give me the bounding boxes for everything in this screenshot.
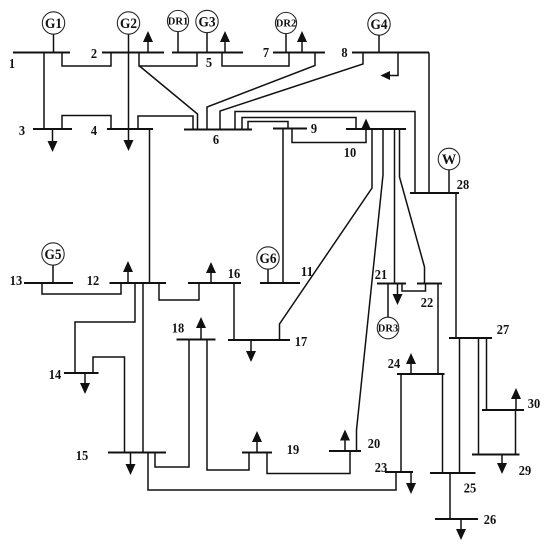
line 15-23 [148, 453, 396, 491]
bus 9 [273, 122, 317, 137]
generator DR1 [167, 10, 188, 52]
bus 23 [375, 461, 413, 476]
bus 1 [9, 53, 70, 73]
svg-text:27: 27 [497, 323, 509, 338]
line 25-27 [459, 338, 461, 473]
generator DR2 [275, 12, 296, 52]
svg-text:28: 28 [457, 178, 469, 193]
line 5-7 [222, 53, 289, 67]
line 23-24 [400, 374, 402, 472]
bus 6 [184, 130, 252, 149]
injection arrow bus 7 [297, 31, 307, 53]
bus 3 [19, 124, 72, 139]
wind turbine W [438, 148, 460, 193]
load bus 17 [246, 340, 256, 362]
line 29-30 [515, 410, 517, 455]
bus 14 [49, 368, 99, 383]
svg-text:G6: G6 [260, 251, 277, 267]
generator DR3 [377, 284, 399, 339]
svg-text:25: 25 [464, 482, 476, 497]
line 24-25 [442, 374, 444, 473]
bus 13 [10, 274, 73, 289]
svg-text:7: 7 [263, 46, 269, 61]
bus 30 [482, 397, 540, 412]
line 1-3 [43, 53, 45, 130]
svg-text:17: 17 [295, 335, 307, 350]
load bus 29 [497, 455, 507, 475]
generator G3 [196, 10, 218, 52]
svg-text:W: W [442, 152, 457, 168]
svg-text:4: 4 [91, 124, 97, 139]
generator G1 [42, 12, 64, 53]
svg-text:29: 29 [519, 464, 531, 479]
injection arrow bus 12 [123, 261, 133, 283]
svg-text:14: 14 [49, 368, 61, 383]
bus 18 [172, 322, 216, 340]
line 1-2 [62, 53, 111, 67]
bus 15 [76, 449, 166, 464]
line 21-22 [402, 284, 426, 292]
bus 2 [91, 47, 164, 62]
line 18-19 [207, 340, 249, 471]
svg-text:DR3: DR3 [378, 324, 398, 335]
svg-text:12: 12 [87, 274, 99, 289]
svg-text:6: 6 [213, 133, 219, 148]
injection arrow bus 30 [511, 388, 521, 410]
svg-text:3: 3 [19, 124, 25, 139]
bus 20 [329, 437, 380, 452]
generator G2 [117, 12, 139, 53]
bus 11 [260, 265, 313, 283]
line 8-28 [428, 53, 430, 194]
line 27-30 [486, 338, 488, 410]
injection arrow bus 10 [362, 119, 371, 130]
svg-text:13: 13 [10, 274, 22, 289]
svg-text:G2: G2 [120, 16, 137, 32]
line 3-4 [62, 116, 111, 130]
svg-text:18: 18 [172, 322, 184, 337]
injection arrow bus 19 [252, 431, 262, 453]
bus 4 [91, 124, 153, 139]
load bus 26 [456, 519, 466, 540]
bus 8 [341, 46, 429, 61]
load bus 23 [406, 472, 416, 494]
load bus 8 (left arrow) [381, 53, 399, 81]
bus 22 [417, 284, 442, 312]
line 12-13 [42, 283, 121, 294]
line 10-21 [394, 129, 396, 284]
svg-text:8: 8 [341, 46, 347, 61]
line 14-15 [93, 357, 125, 453]
load bus 14 [80, 373, 90, 394]
svg-text:23: 23 [375, 461, 387, 476]
line 4-6 [138, 116, 193, 130]
injection arrow bus 2 [143, 31, 153, 53]
bus 10 [344, 129, 406, 161]
line 9-10 [292, 129, 366, 143]
bus 24 [388, 357, 445, 374]
line 15-18 [155, 340, 189, 468]
line 6-7 [207, 53, 315, 130]
line 6-10 [242, 118, 356, 130]
line 28-27 [455, 193, 457, 338]
line 12-16 [159, 283, 199, 300]
line 4-12 [149, 129, 151, 283]
bus 27 [449, 323, 509, 338]
svg-text:15: 15 [76, 449, 88, 464]
bus 19 [242, 443, 299, 458]
line 12-14 [75, 283, 135, 373]
svg-text:1: 1 [9, 57, 15, 72]
bus 28 [410, 178, 469, 193]
generator G4 [368, 13, 390, 53]
line 2-6 [140, 66, 198, 130]
injection arrow bus 16 [206, 262, 216, 283]
svg-text:DR1: DR1 [168, 17, 188, 28]
bus 7 [263, 46, 325, 61]
line 10-20 [357, 129, 384, 451]
svg-text:21: 21 [375, 268, 387, 283]
bus 25 [430, 473, 476, 497]
svg-text:30: 30 [528, 397, 540, 412]
svg-text:G1: G1 [45, 16, 62, 32]
svg-text:26: 26 [484, 513, 496, 528]
svg-text:G4: G4 [371, 17, 388, 33]
load bus 15 [126, 453, 136, 476]
bus 12 [87, 274, 166, 289]
bus 26 [435, 513, 496, 528]
line 2-4 [128, 53, 130, 130]
bus 29 [472, 455, 531, 480]
generator G6 [257, 247, 279, 283]
injection arrow bus 5 [220, 31, 230, 53]
svg-text:DR2: DR2 [276, 19, 296, 30]
svg-text:5: 5 [206, 56, 212, 71]
bus 17 [228, 335, 307, 350]
line 6-28 [235, 112, 415, 194]
line 16-17 [233, 283, 235, 340]
svg-text:19: 19 [287, 443, 299, 458]
svg-text:2: 2 [91, 47, 97, 62]
svg-text:16: 16 [228, 267, 240, 282]
line 27-29 [478, 338, 480, 455]
bus 21 [375, 268, 406, 284]
injection arrow bus 20 [340, 430, 350, 452]
line 6-9 [248, 122, 288, 130]
svg-text:9: 9 [311, 122, 317, 137]
line 9-11 [282, 129, 284, 284]
load bus 21 [393, 284, 403, 306]
bus 16 [188, 267, 241, 283]
line 2-5 [139, 53, 197, 67]
line 19-20 [267, 451, 350, 474]
svg-text:20: 20 [368, 437, 380, 452]
injection arrow bus 24 [406, 353, 416, 374]
line 6-8 [220, 53, 363, 130]
line 12-15 [142, 283, 144, 453]
injection arrow bus 18 [196, 317, 206, 340]
bus 5 [172, 53, 243, 72]
generator G5 [42, 243, 64, 283]
svg-text:24: 24 [388, 357, 400, 372]
load bus 4 [124, 129, 134, 151]
line 10-17 [280, 129, 373, 340]
line 25-26 [449, 473, 451, 519]
svg-text:22: 22 [421, 296, 433, 311]
load bus 3 [48, 129, 58, 152]
svg-text:G5: G5 [45, 247, 62, 263]
svg-text:10: 10 [344, 146, 356, 161]
svg-text:G3: G3 [199, 14, 216, 30]
line 10-22 [400, 129, 425, 284]
line 22-24 [437, 284, 439, 375]
